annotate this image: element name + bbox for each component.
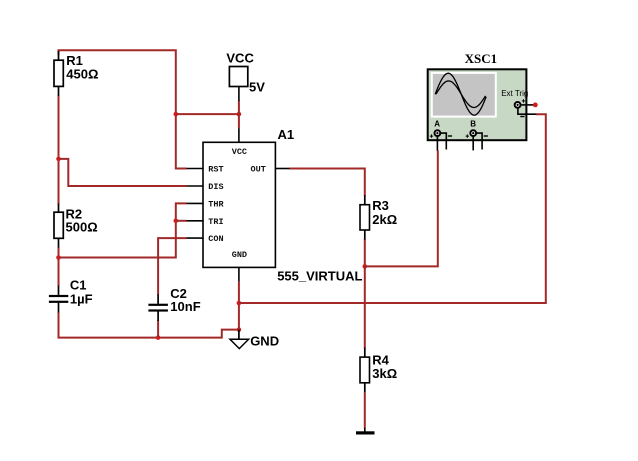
scope channel B terminal <box>466 130 488 138</box>
junction: R1/R2 node <box>56 157 61 162</box>
svg-text:VCC: VCC <box>226 51 254 66</box>
wire: channel B minus stub <box>476 133 482 149</box>
svg-text:450Ω: 450Ω <box>66 67 98 82</box>
pin RST <box>187 165 224 175</box>
svg-text:2kΩ: 2kΩ <box>372 212 397 227</box>
op IC A1 555_VIRTUAL body <box>203 127 363 283</box>
wire: R1 bottom to R2 top (net DIS) <box>58 95 60 205</box>
svg-text:R3: R3 <box>372 198 389 213</box>
svg-text:A1: A1 <box>278 127 295 142</box>
wire: node right and up to THR pin <box>59 203 187 257</box>
oscilloscope screen <box>431 72 497 118</box>
ground bar (earth for R4) <box>356 428 375 435</box>
wire: node to scope channel A <box>365 150 438 266</box>
wire: C2 top to CON pin <box>158 238 186 295</box>
svg-text:1µF: 1µF <box>70 292 93 307</box>
capacitor C1 <box>49 278 93 313</box>
junction: under VCC source <box>237 112 242 117</box>
resistor R2 <box>54 204 98 248</box>
oscilloscope XSC1 body <box>428 51 527 140</box>
svg-text:DIS: DIS <box>208 182 223 192</box>
svg-text:500Ω: 500Ω <box>66 220 98 235</box>
wire: rail to VCC source lead <box>176 113 239 115</box>
wire: ground node to oscilloscope trigger return <box>239 114 546 303</box>
svg-text:C1: C1 <box>70 278 87 293</box>
pin TRI <box>187 217 224 227</box>
resistor R4 <box>360 348 397 393</box>
wire: channel A minus stub <box>441 133 447 149</box>
wire: ext-trig plus stub with end dot <box>521 103 538 108</box>
pin DIS <box>187 182 224 192</box>
wire: node to DIS pin <box>59 159 187 186</box>
wire: OUT pin to R3 top <box>289 169 364 197</box>
wire: node down to GND triangle <box>238 330 240 340</box>
junction: C2 bottom on ground rail <box>156 335 161 340</box>
svg-text:R1: R1 <box>66 53 83 68</box>
wire: channel A plus lead (black stub) <box>436 136 438 150</box>
svg-text:555_VIRTUAL: 555_VIRTUAL <box>277 268 362 283</box>
ground symbol GND (triangle) <box>230 333 279 348</box>
svg-text:Ext Trig: Ext Trig <box>501 89 528 98</box>
wire: node up to IC GND pin <box>238 281 240 329</box>
pin CON <box>187 234 224 244</box>
wire: R2 bottom to C1 top (net THR/TRI) <box>58 247 60 286</box>
svg-text:THR: THR <box>208 200 224 210</box>
svg-text:GND: GND <box>232 250 247 260</box>
svg-text:CON: CON <box>208 234 223 244</box>
pin THR <box>187 200 225 210</box>
svg-text:5V: 5V <box>249 80 265 95</box>
VCC source symbol <box>226 51 265 101</box>
capacitor C2 <box>148 286 200 321</box>
wire: node down to R4 top <box>364 266 366 348</box>
junction: VCC rail at x=175.8 <box>174 112 179 117</box>
wire: R3 bottom to node <box>364 239 366 266</box>
junction: R2/C1 node <box>56 255 61 260</box>
pin VCC (top) <box>232 128 247 157</box>
resistor R3 <box>360 195 397 239</box>
scope channel A terminal <box>430 130 452 138</box>
svg-text:B: B <box>470 120 476 129</box>
svg-text:A: A <box>434 120 440 129</box>
scope ext-trig terminal <box>515 99 526 116</box>
svg-text:TRI: TRI <box>208 217 223 227</box>
resistor R1 <box>54 51 98 96</box>
wire: ext-trig minus stub (black part) <box>518 108 536 114</box>
svg-text:RST: RST <box>208 165 223 175</box>
wire: channel B plus stub <box>472 136 474 150</box>
svg-text:10nF: 10nF <box>170 299 200 314</box>
scope waveform trace A <box>435 73 486 115</box>
junction: ground symbol node <box>237 327 242 332</box>
svg-text:3kΩ: 3kΩ <box>372 366 397 381</box>
wire: C2 bottom lead to rail <box>157 320 159 338</box>
wire: C1 bottom to ground rail <box>59 313 239 338</box>
junction: GND pin / scope return <box>237 301 242 306</box>
svg-text:OUT: OUT <box>251 165 266 175</box>
svg-text:VCC: VCC <box>232 147 247 157</box>
pin GND (bottom) <box>232 250 247 282</box>
svg-text:XSC1: XSC1 <box>465 51 498 66</box>
junction: R3/R4/scope node <box>363 264 368 269</box>
wire: tap to TRI pin <box>176 220 187 222</box>
pin OUT <box>251 165 290 175</box>
wire: R4 bottom to ground bar <box>364 393 366 429</box>
wire: VCC source to IC VCC pin <box>238 101 240 129</box>
wire: R1 top to top rail corner and down to RST (net VCC) <box>59 50 187 168</box>
svg-text:GND: GND <box>250 333 279 348</box>
junction: TRI tap <box>174 219 179 224</box>
scope waveform trace B <box>436 81 486 108</box>
